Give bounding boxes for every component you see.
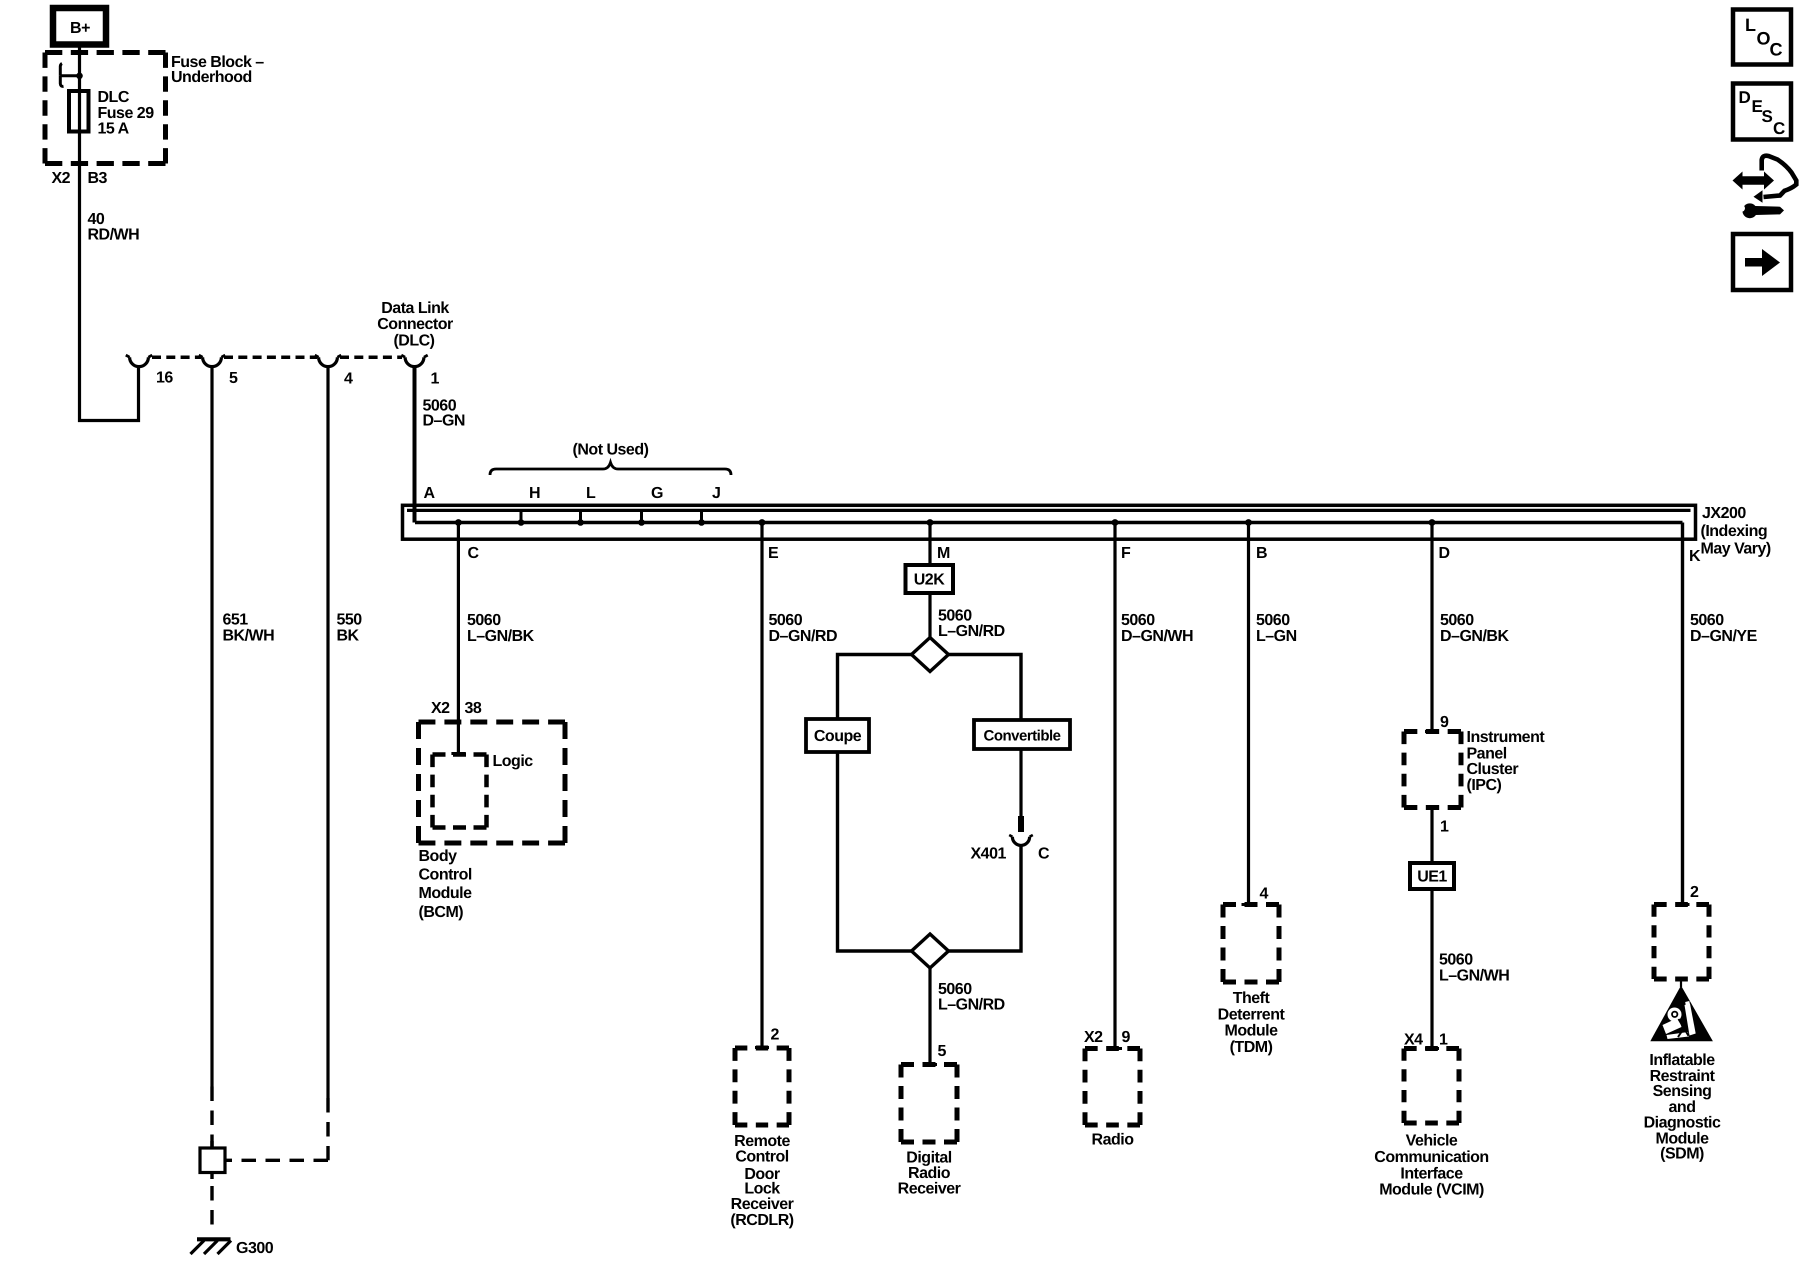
svg-text:L–GN/WH: L–GN/WH (1439, 968, 1509, 985)
stub J (698, 485, 720, 526)
svg-text:550: 550 (337, 612, 363, 629)
svg-text:L: L (1745, 15, 1756, 35)
wire 5060 D-GN/YE node K to SDM (1681, 523, 1684, 905)
svg-text:X2: X2 (1084, 1029, 1103, 1046)
svg-text:X401: X401 (971, 846, 1007, 863)
wire 5060 D-GN/WH node F to Radio (1113, 523, 1116, 1049)
fuse block clip (60, 64, 83, 87)
svg-text:UE1: UE1 (1417, 869, 1447, 886)
branch option Convertible (974, 720, 1070, 749)
svg-text:1: 1 (1439, 1032, 1448, 1049)
wire 651 BK/WH from DLC pin 5 (210, 367, 213, 1148)
svg-text:X2: X2 (431, 700, 450, 717)
node M junction (927, 519, 950, 562)
svg-text:U2K: U2K (914, 572, 945, 589)
svg-text:5060: 5060 (938, 608, 972, 625)
wire IPC to UE1 (1430, 808, 1433, 864)
wire label 5060 D-GN/RD (769, 612, 838, 645)
svg-text:Radio: Radio (908, 1165, 951, 1182)
svg-text:Lock: Lock (744, 1180, 780, 1197)
wire X401 to bottom junction (949, 845, 1022, 951)
svg-text:G: G (651, 485, 663, 502)
svg-text:Receiver: Receiver (898, 1181, 961, 1198)
svg-text:D–GN/RD: D–GN/RD (769, 628, 838, 645)
svg-text:L: L (586, 485, 596, 502)
connector X401 pin C (971, 816, 1051, 863)
svg-text:16: 16 (156, 370, 173, 387)
RCDLR pin tick (755, 1046, 769, 1049)
svg-text:(BCM): (BCM) (419, 904, 464, 921)
node B junction (1245, 519, 1267, 562)
stub H (518, 485, 540, 526)
module SDM box (1654, 905, 1709, 980)
splice junction box (200, 1141, 225, 1179)
SRS warning triangle (1650, 981, 1713, 1042)
svg-text:40: 40 (88, 211, 105, 228)
fuse DLC Fuse 29 15 A (69, 89, 154, 138)
svg-text:L–GN/RD: L–GN/RD (938, 623, 1005, 640)
label JX200 (Indexing May Vary) (1701, 505, 1771, 558)
svg-text:2: 2 (771, 1027, 780, 1044)
label Remote Control Door Lock Receiver (RCDLR) (730, 1133, 793, 1229)
svg-text:Receiver: Receiver (731, 1196, 794, 1213)
wire B+ to fuse to DLC pin 16 (40 RD/WH) (80, 45, 139, 421)
svg-text:F: F (1121, 545, 1131, 562)
VCIM pin tick (1425, 1047, 1439, 1050)
IPC pin tick (1425, 730, 1439, 733)
DLC pin 5 (199, 355, 238, 387)
label Inflatable Restraint Sensing and Diagnostic Module (SDM) (1644, 1052, 1721, 1163)
label Digital Radio Receiver (898, 1150, 961, 1198)
svg-text:J: J (712, 485, 720, 502)
svg-text:651: 651 (223, 612, 249, 629)
DLC pin 4 (315, 355, 353, 387)
wire label 651 BK/WH (223, 612, 275, 645)
svg-text:C: C (1773, 119, 1785, 138)
svg-text:Sensing: Sensing (1653, 1083, 1712, 1100)
svg-text:Communication: Communication (1374, 1149, 1488, 1166)
svg-text:Underhood: Underhood (171, 69, 252, 86)
svg-text:Logic: Logic (493, 753, 534, 770)
svg-text:9: 9 (1122, 1029, 1131, 1046)
svg-text:JX200: JX200 (1702, 505, 1746, 522)
svg-text:Cluster: Cluster (1467, 761, 1519, 778)
svg-text:D–GN/WH: D–GN/WH (1121, 628, 1193, 645)
svg-text:(Not Used): (Not Used) (573, 442, 649, 459)
wire 550 BK from DLC pin 4 (225, 367, 328, 1161)
svg-text:Control: Control (419, 867, 472, 884)
wire 5060 D-GN/BK node D to IPC (1430, 523, 1433, 732)
svg-text:C: C (1038, 846, 1050, 863)
svg-text:Digital: Digital (906, 1150, 951, 1167)
svg-text:Module: Module (419, 885, 473, 902)
module Digital Radio Receiver box (901, 1065, 957, 1143)
svg-text:L–GN/BK: L–GN/BK (467, 628, 535, 645)
svg-text:(RCDLR): (RCDLR) (730, 1212, 793, 1229)
svg-text:Diagnostic: Diagnostic (1644, 1115, 1721, 1132)
svg-text:Connector: Connector (377, 316, 453, 333)
svg-text:Vehicle: Vehicle (1406, 1133, 1458, 1150)
connector label X2 9 (Radio) (1084, 1029, 1131, 1046)
module RCDLR box (735, 1048, 789, 1125)
svg-text:2: 2 (1690, 884, 1699, 901)
svg-text:K: K (1689, 548, 1701, 565)
Radio pin tick (1108, 1047, 1122, 1050)
label Data Link Connector (DLC) (377, 300, 453, 350)
svg-text:S: S (1762, 107, 1773, 126)
SDM pin tick (1676, 903, 1690, 906)
wire U2K to top diamond (928, 593, 931, 638)
wire convertible box to connector X401 (1019, 749, 1022, 819)
label Instrument Panel Cluster (IPC) (1467, 729, 1546, 794)
svg-text:Convertible: Convertible (983, 727, 1060, 744)
wire label 5060 L-GN/BK (467, 612, 535, 645)
power symbol B+ (53, 8, 106, 45)
svg-text:D–GN/YE: D–GN/YE (1690, 628, 1758, 645)
svg-text:4: 4 (1260, 886, 1269, 903)
connector label X2 38 (BCM) (431, 700, 482, 717)
icon diagnostic arrows and wrench (1733, 156, 1797, 219)
svg-text:X2: X2 (52, 170, 71, 187)
module IPC box (1404, 732, 1461, 808)
wire label 5060 L-GN/WH (1439, 952, 1509, 985)
svg-text:Panel: Panel (1467, 746, 1507, 763)
connector DLC dashed body (152, 356, 402, 360)
network UE1 (1410, 863, 1454, 889)
wire 5060 L-GN/BK node C to BCM (457, 523, 460, 754)
svg-text:5060: 5060 (467, 612, 501, 629)
svg-text:Interface: Interface (1400, 1166, 1463, 1183)
module BCM outer box (419, 722, 566, 843)
splice pack bus wire (415, 521, 1683, 525)
svg-text:D: D (1739, 88, 1751, 107)
fuse block underhood dashed box (45, 53, 166, 164)
label Body Control Module (BCM) (419, 848, 473, 921)
svg-text:4: 4 (344, 371, 353, 388)
connector labels X2 B3 (52, 170, 108, 187)
connector label X4 1 (VCIM) (1404, 1032, 1448, 1049)
svg-text:Module (VCIM): Module (VCIM) (1379, 1181, 1484, 1198)
brace (Not Used) (490, 442, 731, 476)
svg-text:Deterrent: Deterrent (1218, 1006, 1286, 1023)
svg-text:Data Link: Data Link (381, 300, 449, 317)
wire bottom diamond to DRR (928, 968, 931, 1064)
label Fuse Block - Underhood (171, 54, 264, 86)
DLC pin 16 (126, 355, 174, 386)
stub G (638, 485, 663, 526)
svg-text:O: O (1757, 29, 1771, 49)
svg-text:9: 9 (1440, 714, 1449, 731)
junction diamond top (912, 638, 949, 672)
svg-text:38: 38 (465, 700, 482, 717)
wire node M to U2K (928, 523, 931, 566)
module VCIM box (1404, 1049, 1459, 1124)
BCM logic box (433, 753, 534, 828)
svg-text:Theft: Theft (1233, 990, 1271, 1007)
wire label 40 RD/WH (88, 211, 140, 244)
svg-text:D–GN/BK: D–GN/BK (1440, 628, 1509, 645)
svg-text:Inflatable: Inflatable (1649, 1052, 1715, 1069)
branch option Coupe (806, 719, 869, 752)
svg-text:C: C (1770, 40, 1783, 60)
node D junction (1429, 519, 1450, 562)
svg-text:Instrument: Instrument (1467, 729, 1546, 746)
DLC pin 1 (401, 355, 439, 387)
wire coupe branch left (838, 655, 912, 720)
svg-text:5060: 5060 (1256, 612, 1290, 629)
svg-text:BK: BK (337, 628, 360, 645)
label Theft Deterrent Module (TDM) (1218, 990, 1286, 1056)
svg-text:Control: Control (735, 1148, 788, 1165)
svg-text:5060: 5060 (1121, 612, 1155, 629)
svg-text:(SDM): (SDM) (1660, 1146, 1704, 1163)
svg-text:L–GN/RD: L–GN/RD (938, 997, 1005, 1014)
BCM pin 38 tick (451, 752, 465, 755)
svg-text:C: C (468, 545, 480, 562)
svg-text:B: B (1256, 545, 1267, 562)
junction diamond bottom (912, 934, 949, 968)
svg-text:G300: G300 (236, 1240, 274, 1257)
svg-text:Body: Body (419, 848, 458, 865)
svg-text:5: 5 (229, 370, 238, 387)
svg-text:Module: Module (1225, 1023, 1279, 1040)
svg-text:5060: 5060 (769, 612, 803, 629)
label Vehicle Communication Interface Module (VCIM) (1374, 1133, 1488, 1199)
module TDM box (1223, 905, 1279, 983)
svg-text:M: M (937, 545, 950, 562)
svg-text:D–GN: D–GN (423, 413, 465, 430)
svg-text:5: 5 (938, 1043, 947, 1060)
TDM pin tick (1242, 903, 1256, 906)
svg-text:RD/WH: RD/WH (88, 227, 140, 244)
svg-text:B+: B+ (70, 20, 90, 37)
svg-text:Coupe: Coupe (814, 728, 862, 745)
wire convertible branch right (949, 655, 1022, 721)
svg-text:(IPC): (IPC) (1467, 777, 1502, 794)
svg-text:Radio: Radio (1092, 1132, 1135, 1149)
icon LOC (1733, 10, 1791, 65)
svg-text:DLC: DLC (98, 89, 130, 106)
DRR pin tick (923, 1063, 937, 1066)
svg-text:5060: 5060 (1690, 612, 1724, 629)
svg-text:1: 1 (431, 371, 440, 388)
svg-text:5060: 5060 (1439, 952, 1473, 969)
svg-text:H: H (529, 485, 540, 502)
ground G300 (191, 1239, 274, 1257)
svg-text:L–GN: L–GN (1256, 628, 1297, 645)
svg-text:1: 1 (1440, 819, 1449, 836)
icon next arrow (1733, 234, 1791, 290)
wire label 5060 D-GN/BK (1440, 612, 1509, 645)
wire label 5060 L-GN/RD lower (938, 981, 1005, 1014)
svg-text:(DLC): (DLC) (393, 333, 434, 350)
splice pack JX200 body (403, 505, 1696, 539)
module Radio box (1085, 1049, 1140, 1126)
wire splice to ground (210, 1186, 213, 1234)
svg-text:D: D (1439, 545, 1450, 562)
wire 5060 D-GN/RD node E to RCDLR (760, 523, 763, 1048)
wire label 5060 D-GN/WH (1121, 612, 1193, 645)
wire label 5060 D-GN (423, 398, 465, 430)
wire 5060 L-GN node B to TDM (1247, 523, 1250, 905)
svg-text:B3: B3 (88, 170, 108, 187)
svg-text:X4: X4 (1404, 1032, 1423, 1049)
icon DESC (1733, 84, 1791, 140)
network U2K (906, 565, 954, 593)
svg-text:5060: 5060 (1440, 612, 1474, 629)
svg-text:(TDM): (TDM) (1230, 1039, 1273, 1056)
svg-text:and: and (1669, 1099, 1696, 1116)
stub L (577, 485, 596, 526)
wire label 5060 D-GN/YE (1690, 612, 1758, 645)
svg-text:Fuse 29: Fuse 29 (98, 105, 155, 122)
wire UE1 to VCIM (5060 L-GN/WH) (1430, 889, 1433, 1049)
wire 5060 D-GN from DLC pin 1 to splice pack node A (413, 367, 417, 523)
svg-text:(Indexing: (Indexing (1701, 523, 1768, 540)
wire label 5060 L-GN/RD upper (938, 608, 1005, 641)
node F junction (1112, 519, 1131, 562)
node C junction (455, 519, 480, 562)
svg-text:May Vary): May Vary) (1701, 541, 1771, 558)
wire label 550 BK (337, 612, 363, 645)
node E junction (759, 519, 779, 562)
svg-text:BK/WH: BK/WH (223, 628, 275, 645)
svg-text:5060: 5060 (938, 981, 972, 998)
svg-text:A: A (424, 485, 436, 502)
wire label 5060 L-GN (1256, 612, 1297, 645)
svg-text:E: E (768, 545, 779, 562)
wire coupe box to bottom junction (838, 752, 912, 951)
svg-text:15 A: 15 A (98, 121, 130, 138)
